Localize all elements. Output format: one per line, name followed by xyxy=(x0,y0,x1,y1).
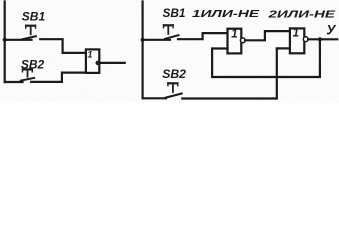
pushbutton SB2 (right) xyxy=(166,82,182,97)
wire SB2 to gate D2 lower input xyxy=(182,48,290,98)
svg-text:SB2: SB2 xyxy=(21,58,45,72)
svg-text:1ИЛИ-НЕ: 1ИЛИ-НЕ xyxy=(192,8,260,20)
wire SB1 left contact (right) xyxy=(143,39,170,41)
pushbutton SB1 (left) xyxy=(22,25,36,40)
node output feedback tap xyxy=(318,37,322,41)
wire right supply bus xyxy=(142,2,144,99)
node SB1 branch (right) xyxy=(141,38,145,42)
svg-text:У: У xyxy=(326,22,336,37)
svg-text:SB1: SB1 xyxy=(22,9,46,23)
wire feedback D2 output to D1 lower input xyxy=(212,39,320,77)
NOR gate box (left circuit) xyxy=(86,49,99,73)
svg-text:SB2: SB2 xyxy=(162,67,186,81)
svg-text:2ИЛИ-НЕ: 2ИЛИ-НЕ xyxy=(267,9,336,21)
svg-text:1: 1 xyxy=(293,28,299,40)
wire bottom SB2 left contact (right) xyxy=(143,97,166,99)
wire SB1 left contact xyxy=(5,39,32,41)
wire left supply bus xyxy=(4,2,6,83)
wire D1 output to D2 upper input xyxy=(245,31,290,40)
wire D2 output Y xyxy=(308,38,337,40)
node SB1 branch (left) xyxy=(3,38,7,42)
NOR gate box D1 (1ИЛИ-НЕ) xyxy=(228,29,242,54)
wire SB1 to gate D1 input xyxy=(178,33,227,39)
svg-text:1: 1 xyxy=(87,49,92,59)
NOR gate box D2 (2ИЛИ-НЕ) xyxy=(290,28,304,53)
svg-text:1: 1 xyxy=(231,29,237,41)
pushbutton SB2 (left) xyxy=(21,68,34,80)
wire SB2 left contact (left bottom) xyxy=(5,81,23,83)
inversion bubble gate D2 xyxy=(303,37,308,42)
wire SB2 to gate input (left) xyxy=(31,73,86,82)
pushbutton SB1 (right) xyxy=(163,24,179,39)
svg-text:SB1: SB1 xyxy=(163,6,186,20)
wire gate output (left) xyxy=(100,62,125,64)
inversion bubble gate D1 xyxy=(240,38,245,43)
wire SB1 to gate input (left) xyxy=(40,39,86,53)
inversion dot at gate output (left) xyxy=(96,61,101,66)
